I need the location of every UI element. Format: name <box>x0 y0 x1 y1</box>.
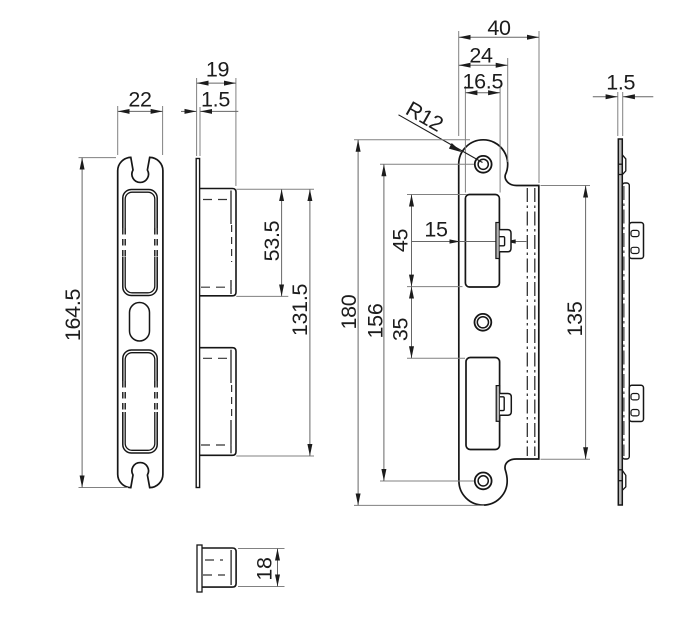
box cross-section <box>202 548 236 587</box>
screw hole top <box>475 156 492 173</box>
dimension 53.5 <box>236 189 314 296</box>
radius label R12 leader <box>399 97 483 163</box>
latch keeper side <box>629 223 643 259</box>
dimension 1.5 (forend thickness) <box>181 87 238 156</box>
bolt cutout <box>466 358 500 450</box>
forend outline <box>118 157 163 487</box>
dimension 24 <box>459 44 508 163</box>
latch box B1 inner edge line <box>230 191 232 295</box>
countersink bulge bottom <box>618 470 625 491</box>
svg-text:1.5: 1.5 <box>201 87 230 111</box>
svg-text:16.5: 16.5 <box>462 70 503 94</box>
slot S2 hidden side dashes <box>124 381 155 412</box>
svg-text:164.5: 164.5 <box>61 289 85 342</box>
dimension 131.5 <box>236 189 314 456</box>
slot S2 inner <box>125 353 155 451</box>
latch cutout <box>465 195 499 288</box>
dimension 135 <box>541 186 591 460</box>
dimension 1.5 (strike thickness) <box>593 71 654 137</box>
lip bend centre line <box>623 186 625 456</box>
dimension 156 <box>364 164 475 481</box>
box cross-section hidden lines <box>203 560 225 575</box>
dimension 22 <box>118 88 163 156</box>
svg-text:22: 22 <box>128 88 151 112</box>
svg-text:1.5: 1.5 <box>606 71 635 95</box>
latch box B1 hidden lines <box>201 200 232 288</box>
flange cross-section <box>197 545 202 592</box>
lip fold centre lines <box>527 188 535 456</box>
strike sheet edge-on <box>618 139 622 505</box>
box cross-section inner edge <box>230 550 232 585</box>
bolt keeper detail <box>496 386 511 422</box>
latch keeper detail <box>496 223 511 259</box>
centre oval hole <box>130 303 150 342</box>
dimension 164.5 <box>61 158 128 488</box>
svg-text:24: 24 <box>469 44 493 68</box>
svg-text:40: 40 <box>487 16 511 40</box>
dimension 18 <box>238 549 285 587</box>
dimension 40 <box>459 16 539 183</box>
dimension 16.5 <box>462 70 503 193</box>
dimension 180 <box>337 140 484 506</box>
svg-text:135: 135 <box>563 301 587 336</box>
bolt box B2 hidden lines <box>201 358 232 445</box>
forend sheet edge-on <box>196 159 199 488</box>
dimension 15 leader line <box>412 218 527 244</box>
screw hole middle <box>475 314 492 331</box>
slot S1 outer <box>123 190 157 296</box>
slot S1 hidden side dashes <box>124 228 155 257</box>
bolt box B2 inner edge line <box>230 350 232 454</box>
bolt box B2 <box>200 348 236 456</box>
countersink bulge top <box>618 155 625 175</box>
svg-text:131.5: 131.5 <box>288 284 312 337</box>
slot S1 inner <box>125 192 155 293</box>
svg-text:53.5: 53.5 <box>260 220 284 261</box>
bolt keeper side <box>629 385 643 421</box>
dimension 19 <box>197 58 236 187</box>
svg-text:15: 15 <box>424 218 448 242</box>
svg-text:19: 19 <box>206 58 229 82</box>
slot S2 outer <box>123 350 157 453</box>
strike plate outline <box>459 140 539 505</box>
svg-text:156: 156 <box>364 303 388 338</box>
svg-text:180: 180 <box>337 294 361 329</box>
folded lip edge-on <box>622 183 629 459</box>
svg-text:45: 45 <box>389 229 413 253</box>
screw hole bottom <box>475 473 492 490</box>
svg-text:35: 35 <box>389 318 413 342</box>
dimension 35 <box>389 287 466 359</box>
dimension 45 <box>389 195 468 287</box>
latch box B1 <box>200 189 236 296</box>
svg-text:18: 18 <box>253 557 277 581</box>
svg-text:R12: R12 <box>402 97 447 137</box>
